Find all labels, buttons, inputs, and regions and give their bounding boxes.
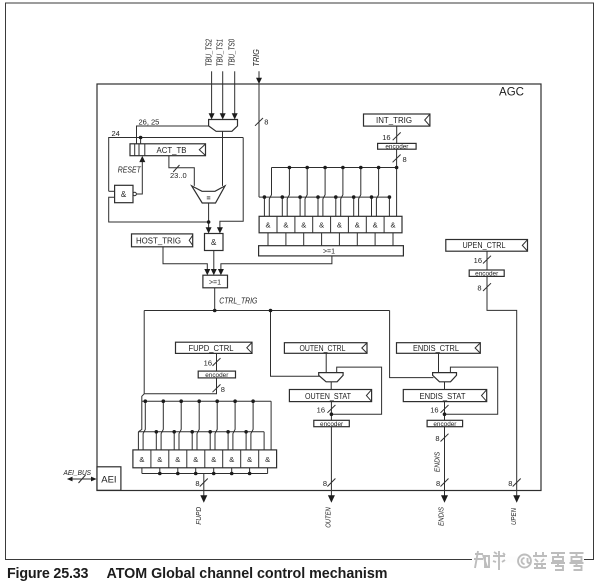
svg-text:16: 16: [317, 405, 325, 414]
FUPD array lower rail: [138, 431, 264, 433]
svg-text:8: 8: [436, 479, 440, 488]
arrowhead RESET up into ACT_TB: [139, 156, 145, 162]
INT channel AND gate array: [259, 216, 402, 233]
bus width slash 8 FUPD: [213, 384, 221, 392]
wire ENDIS feedback loop: [445, 367, 498, 414]
junction dot INT lower rail 1: [263, 195, 267, 199]
junction dot INT upper rail 4: [341, 166, 345, 170]
svg-text:TBU_TS1: TBU_TS1: [216, 39, 225, 67]
svg-text:encoder: encoder: [205, 372, 229, 379]
wire CTRL_TRIG distribution line: [144, 310, 389, 312]
wire INT gate stub 8: [392, 233, 394, 246]
wire FUPD upper-rail drop 3: [179, 401, 181, 450]
wire FUPD encoder output routed left: [144, 378, 216, 394]
arrowhead TBU_TS0 into mux: [232, 113, 238, 119]
svg-text:8: 8: [477, 284, 481, 293]
INT channel OR bar >=1: [259, 246, 404, 256]
svg-text:&: &: [211, 238, 217, 247]
register FUPD_CTRL: [176, 342, 253, 353]
junction dot net24 at ACT_TB: [139, 136, 143, 140]
comparator =: [192, 186, 225, 203]
svg-text:OUTEN_STAT: OUTEN_STAT: [305, 392, 351, 401]
wire FUPD lower-rail drop 3: [173, 432, 175, 450]
wire mux output to comparator right input: [222, 131, 224, 186]
svg-text:&: &: [390, 220, 395, 229]
wire FUPD lower-rail drop 2: [155, 432, 157, 450]
bus width slash 8 UPEN mid: [483, 283, 491, 291]
INT array lower rail: [259, 196, 389, 198]
svg-text:ENDIS: ENDIS: [437, 507, 446, 526]
wire CTRL_TRIG from OR gate: [214, 288, 216, 311]
AND gate trigger: [205, 234, 224, 251]
arrowheads into OR gate: [204, 269, 210, 275]
wire TBU_TS2 input: [211, 71, 213, 114]
wire CTRL_TRIG drop to ENDIS funnel: [390, 311, 434, 378]
wire FUPD output: [203, 474, 205, 497]
svg-text:8: 8: [403, 155, 407, 164]
svg-text:>=1: >=1: [209, 280, 221, 287]
svg-text:&: &: [211, 455, 216, 464]
wire FUPD upper-rail drop 2: [161, 401, 163, 450]
register UPEN_CTRL: [446, 240, 528, 252]
arrowhead TRIG at AGC border: [256, 78, 262, 84]
junction dot FUPD lower rail 3: [190, 430, 194, 434]
svg-text:encoder: encoder: [433, 421, 457, 428]
wire FUPD upper-rail drop 6: [233, 401, 235, 450]
junction dot FUPD upper rail 7: [251, 399, 255, 403]
svg-text:ATOM Global channel control me: ATOM Global channel control mechanism: [107, 566, 388, 582]
svg-text:RESET: RESET: [118, 166, 142, 175]
wire FUPD upper-rail drop 8: [270, 401, 272, 450]
watermark zhihu logo text approximation: [474, 551, 489, 568]
junction dot INT lower rail 7: [370, 195, 374, 199]
register ACT_TB: [130, 144, 206, 156]
arrowhead TBU_TS2 into mux: [209, 113, 215, 119]
svg-text:8: 8: [508, 479, 512, 488]
wire ENDIS funnel to ENDIS_STAT: [444, 382, 446, 390]
junction dot FUPD collection rail 1: [158, 472, 162, 476]
svg-text:16: 16: [474, 256, 482, 265]
arrowhead OUTEN output: [328, 495, 335, 502]
wire FUPD gate stub 3: [177, 468, 179, 474]
wire FUPD_CTRL to encoder: [216, 353, 218, 371]
wire INT upper-rail drop 5: [341, 168, 343, 217]
junction dot FUPD upper rail 4: [197, 399, 201, 403]
arrowhead bypass into AND: [217, 227, 223, 233]
svg-text:&: &: [265, 455, 270, 464]
wire INT encoder output down to rail and gate 8: [396, 149, 398, 216]
bus width slash 16 INT: [393, 132, 401, 140]
register ENDIS_CTRL: [397, 343, 481, 354]
arrowhead UPEN output: [513, 495, 520, 502]
encoder UPEN: [469, 270, 504, 276]
watermark backing mask over frame line: [472, 557, 584, 562]
svg-text:8: 8: [435, 434, 439, 443]
register OUTEN_STAT: [289, 390, 371, 402]
wire INT upper-rail drop 2: [287, 168, 289, 217]
wire INT upper-rail drop 7: [376, 168, 378, 217]
wire INT lower-rail drop 2: [281, 197, 283, 216]
svg-text:&: &: [355, 220, 360, 229]
junction dot INT upper rail 2: [305, 166, 309, 170]
wire UPEN_CTRL to encoder: [486, 251, 488, 270]
wire INT upper-rail drop 3: [305, 168, 307, 217]
wire FUPD gate stub 5: [213, 468, 215, 474]
arrowhead FUPD output: [200, 495, 207, 502]
junction dot FUPD lower rail 1: [155, 430, 159, 434]
junction dot INT upper rail 5: [359, 166, 363, 170]
bus width slash 16 FUPD: [213, 358, 221, 366]
NAND output bubble: [133, 192, 136, 195]
wire INT gate stub 7: [374, 233, 376, 246]
encoder FUPD: [198, 371, 235, 378]
junction dot INT lower rail 8: [388, 195, 392, 199]
bus width slash TRIG 8: [255, 118, 263, 126]
svg-text:&: &: [193, 455, 198, 464]
svg-text:16: 16: [382, 133, 390, 142]
svg-text:FUPD: FUPD: [194, 506, 203, 525]
junction dot FUPD collection rail 5: [230, 472, 234, 476]
svg-text:ENDIS_STAT: ENDIS_STAT: [420, 392, 466, 401]
wire INT upper-rail drop 1: [269, 168, 271, 217]
wire INT gate stub 5: [338, 233, 340, 246]
svg-text:&: &: [175, 455, 180, 464]
wire NAND output to RESET arrow: [136, 161, 142, 195]
svg-text:encoder: encoder: [475, 271, 499, 278]
svg-text:AGC: AGC: [499, 87, 524, 99]
wire FUPD gate stub 8: [267, 468, 269, 474]
wire FUPD lower-rail drop 8: [263, 432, 265, 450]
junction dot FUPD upper rail 2: [162, 399, 166, 403]
bus width slash 8 ENDIS output: [441, 479, 449, 487]
junction dot FUPD lower rail 5: [226, 430, 230, 434]
wire AND gate output to OR gate: [213, 251, 215, 271]
arrowhead comparator out into AND: [206, 227, 212, 233]
junction dot OUTEN feedback: [330, 412, 334, 416]
OR gate >=1 trigger: [203, 275, 228, 288]
wire ENDIS_CTRL to funnel: [438, 353, 440, 372]
wire FUPD gate stub 4: [195, 468, 197, 474]
svg-text:>=1: >=1: [323, 249, 335, 256]
svg-text:OUTEN_CTRL: OUTEN_CTRL: [300, 344, 346, 353]
bus width slash 8 ENDIS inner: [441, 434, 449, 442]
encoder ENDIS: [427, 420, 463, 426]
wire INT lower-rail drop 3: [299, 197, 301, 216]
wire INT lower-rail drop 4: [317, 197, 319, 216]
wire OUTEN_CTRL to funnel: [325, 353, 327, 372]
NAND gate RESET: [115, 185, 133, 202]
wire TBU_TS1 input: [222, 71, 224, 114]
wire INT lower-rail drop 1: [263, 197, 265, 216]
wire FUPD upper-rail drop 7: [251, 401, 253, 450]
wire INT gate stub 1: [267, 233, 269, 246]
svg-text:&: &: [319, 220, 324, 229]
bus width slash 16 UPEN: [483, 256, 491, 264]
wire INT upper-rail drop 4: [323, 168, 325, 217]
wire FUPD upper-rail drop 1: [143, 401, 145, 450]
svg-text:=: =: [207, 196, 211, 203]
wire FUPD lower-rail drop 5: [209, 432, 211, 450]
svg-text:encoder: encoder: [320, 421, 344, 428]
wire INT lower-rail drop 6: [353, 197, 355, 216]
junction dot INT lower rail 3: [298, 195, 302, 199]
arrowhead TBU_TS1 into mux: [220, 113, 226, 119]
wire FUPD rail feed jog: [138, 394, 144, 432]
svg-text:24: 24: [112, 129, 120, 138]
wire net 24 horizontal: [109, 138, 244, 192]
junction dot FUPD lower rail 6: [244, 430, 248, 434]
bus width slash 8 UPEN output: [513, 479, 521, 487]
wire ACT_TB 23..0 to comparator left input: [169, 156, 194, 186]
AEI_BUS slash: [79, 475, 86, 483]
wire TRIG bus into AGC down to channel rail: [258, 84, 260, 197]
wire UPEN encoder output routed to port: [487, 276, 517, 496]
bus width slash 8 FUPD output: [200, 479, 208, 487]
svg-text:16: 16: [204, 359, 212, 368]
wire FUPD lower-rail drop 7: [245, 432, 247, 450]
FUPD array upper rail: [142, 400, 271, 402]
wire OUTEN encoder output to port: [330, 427, 332, 497]
wire FUPD lower-rail drop 4: [191, 432, 193, 450]
wire INT gate stub 6: [356, 233, 358, 246]
wire FUPD upper-rail drop 4: [197, 401, 199, 450]
junction dot INT upper rail 7: [395, 166, 399, 170]
register INT_TRIG: [364, 114, 430, 126]
svg-text:FUPD_CTRL: FUPD_CTRL: [189, 344, 235, 353]
junction dot FUPD lower rail 4: [208, 430, 212, 434]
svg-text:TBU_TS0: TBU_TS0: [228, 38, 237, 66]
junction dot FUPD collection rail 6: [248, 472, 252, 476]
svg-text:OUTEN: OUTEN: [324, 507, 333, 528]
junction dot INT upper rail 3: [323, 166, 327, 170]
svg-text:ENDIS_CTRL: ENDIS_CTRL: [413, 344, 460, 353]
encoder INT: [378, 143, 417, 149]
svg-text:UPEN: UPEN: [509, 508, 518, 525]
wire FUPD gate stub 1: [141, 468, 143, 474]
bus width slash 16 OUTEN: [327, 405, 335, 413]
svg-text:8: 8: [221, 385, 225, 394]
svg-text:8: 8: [323, 479, 327, 488]
svg-text:UPEN_CTRL: UPEN_CTRL: [463, 241, 506, 250]
wire net 24 drop into ACT_TB bit cell: [140, 138, 142, 144]
svg-text:AEI_BUS: AEI_BUS: [63, 468, 92, 477]
wire INT gate stub 3: [303, 233, 305, 246]
wire INT gate stub 2: [285, 233, 287, 246]
junction dot FUPD upper rail 1: [144, 399, 148, 403]
svg-text:&: &: [373, 220, 378, 229]
svg-text:&: &: [301, 220, 306, 229]
svg-text:8: 8: [195, 479, 199, 488]
junction dot FUPD collection rail 3: [194, 472, 198, 476]
junction dot INT lower rail 4: [316, 195, 320, 199]
wire INT lower-rail drop 8: [388, 197, 390, 216]
svg-text:TRIG: TRIG: [252, 49, 261, 67]
wire FUPD upper-rail drop 5: [215, 401, 217, 450]
wire INT_TRIG reg to encoder: [396, 126, 398, 143]
junction dot FUPD upper rail 6: [233, 399, 237, 403]
wire net 26,25 select to mux: [137, 126, 209, 144]
svg-text:&: &: [157, 455, 162, 464]
wire OUTEN funnel to OUTEN_STAT: [330, 382, 332, 390]
junction dot INT lower rail 5: [334, 195, 338, 199]
INT array upper rail: [272, 167, 397, 169]
svg-text:&: &: [337, 220, 342, 229]
wire NAND upper input stub: [109, 190, 115, 192]
svg-text:INT_TRIG: INT_TRIG: [376, 116, 412, 125]
wire TBU_TS0 input: [234, 71, 236, 114]
svg-text:&: &: [283, 220, 288, 229]
svg-text:&: &: [265, 220, 270, 229]
svg-text:encoder: encoder: [385, 143, 409, 150]
svg-text:&: &: [247, 455, 252, 464]
svg-text:16: 16: [430, 405, 438, 414]
wire NAND lower input loop to comparator output: [109, 197, 209, 222]
wire FUPD lower-rail drop 6: [227, 432, 229, 450]
junction dot INT lower rail 2: [281, 195, 285, 199]
svg-text:23..0: 23..0: [170, 171, 187, 180]
bus width slash 8 INT: [393, 155, 401, 163]
junction dot ENDIS feedback: [443, 412, 447, 416]
encoder OUTEN: [314, 420, 350, 426]
wire CTRL_TRIG down left side to FUPD array: [143, 311, 145, 394]
wire HOST_TRIG to OR gate: [163, 247, 207, 271]
svg-text:26, 25: 26, 25: [139, 117, 160, 126]
svg-text:ACT_TB: ACT_TB: [157, 146, 187, 155]
wire INT lower-rail drop 5: [335, 197, 337, 216]
junction dot INT upper rail 6: [377, 166, 381, 170]
junction dot FUPD upper rail 5: [215, 399, 219, 403]
wire FUPD gate stub 6: [231, 468, 233, 474]
wire INT lower-rail drop 7: [371, 197, 373, 216]
wire FUPD lower-rail drop 1: [137, 432, 139, 450]
svg-text:Figure 25.33: Figure 25.33: [7, 566, 89, 582]
svg-text:&: &: [121, 190, 127, 199]
wire FUPD gate stub 7: [249, 468, 251, 474]
wire FUPD gate stub 2: [159, 468, 161, 474]
wire TRIG input: [258, 71, 260, 79]
svg-text:ENDIS: ENDIS: [432, 452, 441, 473]
FUPD channel AND gate array: [133, 450, 277, 468]
AEI_BUS double arrow: [72, 478, 92, 480]
svg-text:8: 8: [264, 118, 268, 127]
svg-text:AEI: AEI: [101, 474, 116, 485]
wire ENDIS_STAT output down: [444, 402, 446, 421]
FUPD collection rail: [142, 473, 268, 475]
wire comparator output to AND gate: [208, 203, 210, 228]
wire OUTEN_STAT output down: [330, 402, 332, 421]
junction dot FUPD lower rail 2: [172, 430, 176, 434]
junction dot comparator output / reset loop: [207, 220, 211, 224]
svg-text:&: &: [139, 455, 144, 464]
svg-text:TBU_TS2: TBU_TS2: [205, 38, 214, 66]
junction dot FUPD collection rail 4: [212, 472, 216, 476]
wire INT channel OR bar output to OR gate: [221, 256, 332, 271]
wire bypass to AND gate right input: [220, 138, 243, 229]
junction dot INT upper rail 1: [288, 166, 292, 170]
svg-text:&: &: [229, 455, 234, 464]
mux funnel OUTEN: [319, 373, 343, 382]
bus width slash 8 OUTEN output: [327, 479, 335, 487]
junction dot CTRL_TRIG line left: [213, 309, 217, 313]
junction dot CTRL_TRIG line OUTEN drop: [269, 309, 273, 313]
wire ENDIS encoder output to port: [444, 427, 446, 497]
register OUTEN_CTRL: [284, 343, 367, 354]
mux TBU timestamp select: [209, 120, 238, 132]
junction dot INT lower rail 6: [352, 195, 356, 199]
junction dot FUPD upper rail 3: [179, 399, 183, 403]
register ENDIS_STAT: [403, 390, 486, 402]
wire OUTEN feedback loop: [331, 367, 381, 414]
register HOST_TRIG: [132, 234, 193, 247]
junction dot FUPD collection rail 2: [176, 472, 180, 476]
wire CTRL_TRIG drop to OUTEN funnel: [271, 311, 320, 377]
AGC block boundary: [97, 84, 541, 491]
svg-text:HOST_TRIG: HOST_TRIG: [136, 237, 181, 246]
arrowheads AEI_BUS: [67, 477, 73, 482]
bus width slash 23..0: [173, 165, 179, 172]
AEI interface box: [97, 467, 121, 491]
wire INT gate stub 4: [321, 233, 323, 246]
mux funnel ENDIS: [433, 373, 457, 382]
arrowhead ENDIS output: [441, 495, 448, 502]
svg-text:CTRL_TRIG: CTRL_TRIG: [219, 296, 257, 305]
bus width slash 16 ENDIS: [441, 405, 449, 413]
wire INT upper-rail drop 6: [359, 168, 361, 217]
